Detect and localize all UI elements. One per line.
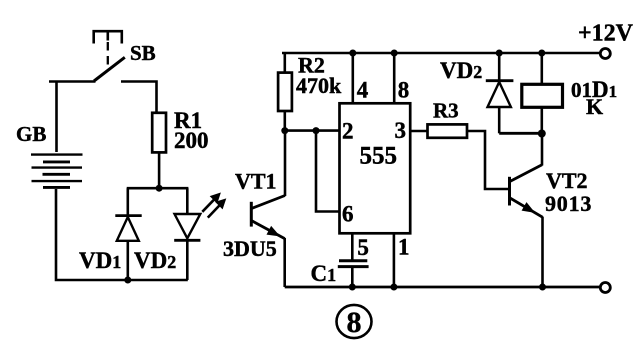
pin 3 wire [410,130,427,133]
terminal bottom right [600,283,610,293]
svg-text:6: 6 [342,202,354,227]
wire R1 to node [158,152,161,188]
pin 5 wire [351,233,354,259]
svg-text:470k: 470k [296,73,342,98]
pushbutton SB [94,31,125,81]
LED light arrow upper [202,194,220,212]
pin 8 wire [393,53,396,103]
transistor VT2 [510,134,543,288]
svg-text:1: 1 [398,235,410,260]
svg-text:VD2: VD2 [440,58,482,83]
wire R3 to VT2 base [467,131,509,189]
svg-text:VT1: VT1 [235,169,277,194]
svg-text:9013: 9013 [545,191,592,216]
wire diode pair top [127,187,189,190]
node dot C1 bottom [349,284,356,291]
node dot emitter bottom [539,284,546,291]
wire node to pin 2 [285,129,340,132]
relay K coil [522,53,563,134]
diode VD2 flyback [486,53,514,133]
node dot diode top [496,50,503,57]
LED VD2 [174,188,200,280]
svg-text:VD2: VD2 [134,248,176,273]
wire switch contact to R1 [121,82,157,113]
node dot relay top [538,50,545,57]
resistor R1 [152,113,166,153]
svg-text:+12V: +12V [578,21,634,47]
node dot pin1 bottom [390,284,397,291]
svg-text:K: K [586,94,603,119]
svg-text:2: 2 [342,119,354,144]
node junction dot [156,185,163,192]
svg-text:4: 4 [357,77,369,102]
node dot pin8 [391,50,398,57]
node dot R2 bottom [281,127,288,134]
bottom wire of left loop [56,189,188,280]
svg-text:GB: GB [16,122,46,146]
svg-text:3: 3 [395,118,407,143]
svg-text:8: 8 [398,77,410,102]
capacitor C1 [338,261,369,287]
pin 4 wire [351,53,354,103]
pin 1 wire [393,233,396,287]
svg-text:200: 200 [174,128,209,153]
junction dot bottom [124,277,131,284]
battery GB [31,155,83,188]
svg-text:VT2: VT2 [546,168,588,193]
svg-text:C1: C1 [311,261,337,286]
svg-text:555: 555 [360,143,398,170]
svg-text:VD1: VD1 [79,248,121,273]
wire R2 to pin2 node [283,111,286,131]
wire to pin 6 [316,131,340,212]
svg-text:R3: R3 [433,99,459,123]
wire rail to R2 [283,53,286,73]
bottom rail [285,286,600,289]
phototransistor VT1 [251,131,285,287]
node +12V rail [282,52,600,55]
junction dot collector node [538,130,546,138]
wire diode to relay bottom [499,132,542,135]
resistor R2 [278,73,292,111]
node dot pin4 [349,50,356,57]
diode VD1 [115,188,141,280]
IC 555 box [340,103,411,233]
resistor R3 [428,124,468,137]
terminal +12V [600,49,610,59]
svg-text:8: 8 [347,306,362,339]
svg-text:3DU5: 3DU5 [223,236,277,261]
svg-text:SB: SB [130,41,156,65]
wire battery plus up to switch [49,82,96,153]
figure number 8 circle [337,305,372,338]
svg-text:5: 5 [357,235,369,260]
LED light arrow lower [208,199,225,217]
node dot pin6 branch [313,127,320,134]
